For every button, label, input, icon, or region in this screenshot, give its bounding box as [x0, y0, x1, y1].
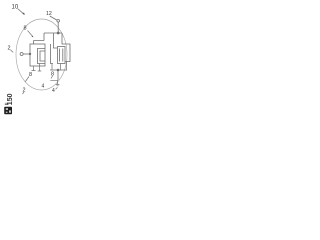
- svg-text:8: 8: [29, 72, 32, 78]
- svg-text:8: 8: [24, 26, 27, 32]
- svg-text:12: 12: [46, 11, 52, 17]
- svg-text:10: 10: [12, 5, 19, 11]
- svg-text:2: 2: [23, 88, 26, 94]
- svg-text:2: 2: [8, 46, 11, 52]
- svg-text:4: 4: [42, 84, 45, 90]
- svg-text:150: 150: [7, 93, 14, 105]
- svg-text:4: 4: [52, 88, 55, 94]
